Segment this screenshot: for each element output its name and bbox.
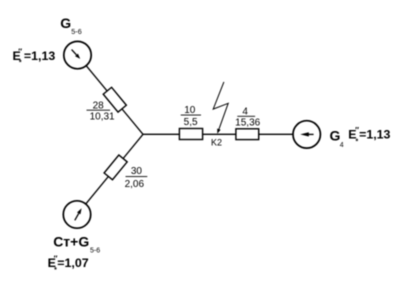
generator G5-6	[64, 41, 91, 68]
generator G4	[293, 121, 320, 148]
svg-text:15,36: 15,36	[235, 118, 260, 129]
generator Ct+G5-6	[63, 201, 90, 228]
EMF arrow G4	[308, 133, 314, 135]
EMF arrow G5-6	[72, 50, 77, 55]
resistor 28/10,31	[103, 87, 126, 112]
svg-text:*: *	[19, 60, 22, 67]
wire top branch	[86, 66, 143, 135]
svg-text:*: *	[356, 139, 359, 146]
EMF arrow Ct+G5-6	[75, 213, 79, 220]
svg-text:=1,13: =1,13	[359, 128, 390, 142]
svg-text:Ст+G: Ст+G	[53, 234, 89, 250]
svg-text:=1,13: =1,13	[24, 49, 55, 63]
svg-text:″: ″	[18, 47, 22, 56]
resistor 30/2,06	[104, 155, 127, 180]
resistor 10/5,5	[179, 129, 202, 140]
wire bottom branch	[86, 134, 143, 204]
short-circuit bolt K2	[213, 82, 228, 129]
svg-text:=1,07: =1,07	[57, 256, 88, 270]
svg-text:30: 30	[131, 166, 143, 177]
resistor 4/15,36	[236, 129, 259, 140]
svg-text:4: 4	[340, 142, 344, 149]
svg-text:5-6: 5-6	[71, 27, 81, 36]
svg-text:10: 10	[184, 105, 196, 116]
svg-text:5,5: 5,5	[184, 117, 198, 128]
svg-text:2,06: 2,06	[125, 179, 145, 190]
svg-text:K2: K2	[211, 137, 222, 147]
wire horizontal	[143, 133, 293, 135]
svg-text:10,31: 10,31	[90, 112, 115, 123]
svg-text:5-6: 5-6	[90, 248, 100, 255]
svg-text:G: G	[60, 15, 71, 31]
svg-text:4: 4	[242, 107, 248, 118]
